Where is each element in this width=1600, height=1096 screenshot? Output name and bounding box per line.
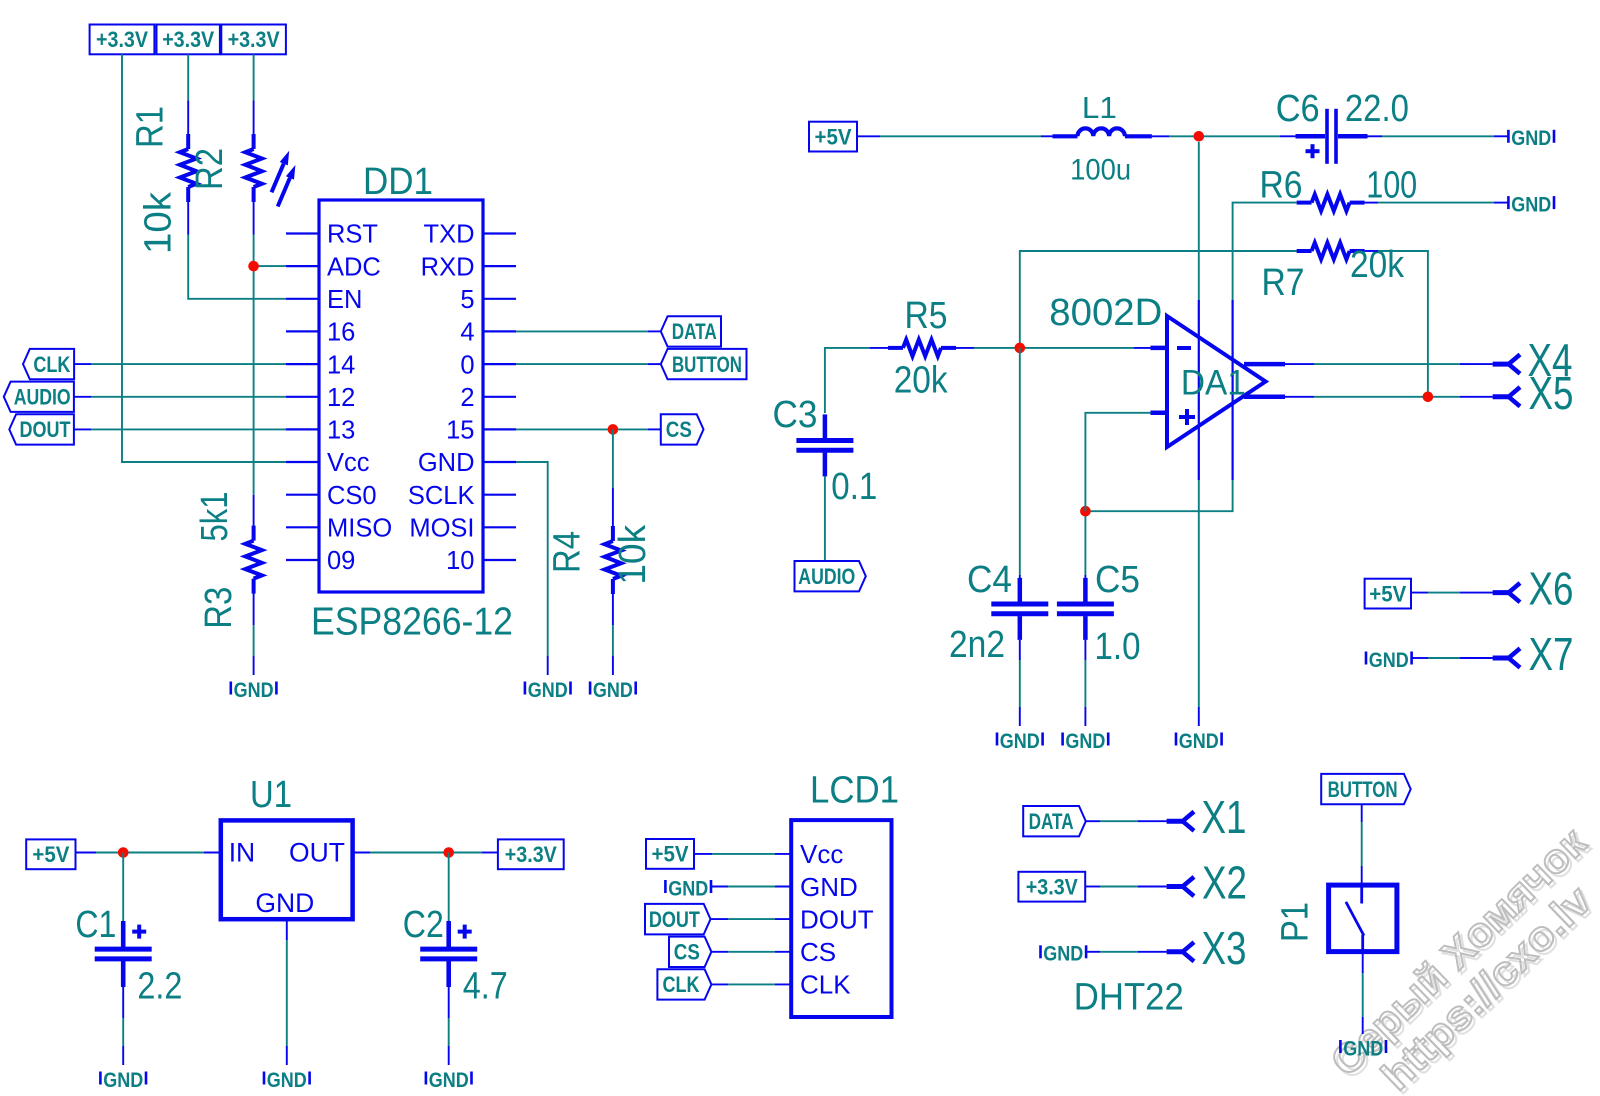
label C1 bbox=[75, 904, 116, 946]
svg-text:+3.3V: +3.3V bbox=[162, 27, 214, 52]
flag DOUT (in) bbox=[9, 414, 74, 444]
svg-text:GND: GND bbox=[103, 1068, 143, 1092]
flag AUDIO (out) bbox=[795, 561, 866, 591]
label R2 bbox=[189, 148, 231, 190]
value 100 (R6) bbox=[1366, 165, 1417, 207]
svg-text:L1: L1 bbox=[1082, 90, 1117, 125]
svg-text:GND: GND bbox=[528, 678, 568, 702]
power flag +5V (X6) bbox=[1365, 579, 1411, 609]
flag DOUT (LCD) bbox=[645, 904, 711, 935]
resistor R2 (photo) bbox=[245, 134, 295, 207]
svg-text:0.1: 0.1 bbox=[831, 466, 877, 508]
ground (C1) bbox=[100, 1068, 146, 1092]
ground (DA1) bbox=[1176, 729, 1222, 753]
label LCD1 bbox=[810, 770, 899, 812]
svg-text:GND: GND bbox=[800, 872, 858, 902]
wire GND to X3 bbox=[1087, 951, 1166, 953]
label X6 bbox=[1529, 563, 1574, 615]
wire R3 to GND bbox=[253, 625, 255, 675]
svg-text:MISO: MISO bbox=[327, 515, 392, 543]
label R5 bbox=[905, 295, 948, 337]
power flag +3.3V (2) bbox=[157, 25, 220, 55]
svg-text:CS: CS bbox=[674, 940, 700, 965]
ground (P1) bbox=[1340, 1036, 1386, 1060]
wire CS node to R4 bbox=[612, 429, 614, 526]
label R3 bbox=[198, 587, 240, 629]
label R6 bbox=[1260, 165, 1303, 207]
svg-text:10k: 10k bbox=[138, 191, 180, 254]
ground flag (LCD) bbox=[665, 876, 711, 900]
wire R7 left bbox=[1020, 251, 1297, 348]
svg-text:GND: GND bbox=[1369, 648, 1409, 672]
label P1 bbox=[1275, 902, 1317, 942]
svg-text:2: 2 bbox=[460, 384, 474, 412]
connector X6 bbox=[1493, 583, 1520, 602]
svg-text:GND: GND bbox=[255, 888, 314, 918]
ground flag (X7) bbox=[1366, 648, 1412, 672]
wire DOUT to LCD bbox=[711, 918, 792, 920]
svg-text:GND: GND bbox=[418, 449, 475, 477]
svg-text:+3.3V: +3.3V bbox=[1026, 875, 1078, 900]
value 20k (R5) bbox=[894, 360, 949, 402]
svg-text:X3: X3 bbox=[1202, 922, 1247, 974]
svg-text:C6: C6 bbox=[1276, 88, 1320, 130]
svg-text:DOUT: DOUT bbox=[20, 417, 71, 442]
svg-text:AUDIO: AUDIO bbox=[14, 385, 71, 410]
svg-text:14: 14 bbox=[327, 351, 355, 379]
flag CS (LCD) bbox=[669, 937, 711, 967]
value 22.0 (C6) bbox=[1345, 88, 1409, 130]
svg-text:DD1: DD1 bbox=[363, 161, 433, 203]
wire DOUT to pin13 bbox=[74, 428, 286, 430]
wire R2 to ADC node bbox=[253, 202, 255, 495]
wire C3 to AUDIO bbox=[824, 476, 826, 561]
wire L1 to node bbox=[1152, 135, 1296, 137]
svg-text:20k: 20k bbox=[894, 360, 949, 402]
regulator U1 bbox=[221, 820, 353, 919]
label X3 bbox=[1202, 922, 1247, 974]
resistor R7 bbox=[1297, 243, 1365, 260]
wire pin4 to DATA bbox=[516, 330, 661, 332]
svg-text:CS: CS bbox=[666, 417, 692, 442]
svg-text:13: 13 bbox=[327, 417, 355, 445]
wire plus input bbox=[1085, 413, 1150, 511]
wire node to C5 bbox=[1084, 511, 1086, 601]
wire BUTTON to P1 bbox=[1361, 804, 1363, 885]
label DA1 bbox=[1181, 364, 1246, 403]
wire +3.3V to Vcc bbox=[122, 54, 286, 462]
capacitor C5 bbox=[1057, 578, 1114, 640]
svg-text:2.2: 2.2 bbox=[137, 966, 182, 1008]
svg-text:1.0: 1.0 bbox=[1095, 626, 1141, 668]
label C6 bbox=[1276, 88, 1320, 130]
svg-text:RXD: RXD bbox=[421, 253, 475, 281]
svg-text:DOUT: DOUT bbox=[649, 907, 700, 932]
label C4 bbox=[967, 559, 1012, 601]
svg-text:+3.3V: +3.3V bbox=[505, 842, 557, 867]
svg-text:LCD1: LCD1 bbox=[810, 770, 899, 812]
svg-text:P1: P1 bbox=[1275, 902, 1317, 942]
svg-text:+5V: +5V bbox=[652, 842, 689, 867]
power flag +3.3V (X2) bbox=[1018, 872, 1085, 902]
label X5 bbox=[1529, 367, 1574, 419]
capacitor C3 bbox=[796, 414, 853, 476]
svg-text:GND: GND bbox=[593, 678, 633, 702]
ground (C4) bbox=[997, 729, 1043, 753]
wire C6 to GND bbox=[1368, 135, 1508, 137]
connector X2 bbox=[1167, 877, 1194, 896]
power flag +5V (U1) bbox=[26, 839, 75, 869]
svg-text:MOSI: MOSI bbox=[409, 515, 474, 543]
svg-text:IN: IN bbox=[229, 838, 256, 868]
flag BUTTON (P1) bbox=[1321, 774, 1411, 804]
wire R4 to GND bbox=[612, 594, 614, 675]
power flag +3.3V (U1) bbox=[498, 839, 564, 869]
power flag +5V (LCD) bbox=[646, 839, 694, 869]
svg-text:CLK: CLK bbox=[33, 352, 70, 377]
label U1 bbox=[250, 774, 292, 816]
value 100u (L1) bbox=[1070, 154, 1131, 187]
svg-text:AUDIO: AUDIO bbox=[798, 564, 855, 589]
wire CS to LCD bbox=[711, 951, 791, 953]
capacitor C2 bbox=[420, 923, 477, 985]
wire GND to X7 bbox=[1412, 657, 1493, 659]
value 1.0 (C5) bbox=[1095, 626, 1141, 668]
resistor R3 bbox=[245, 495, 262, 625]
label X4 bbox=[1528, 334, 1573, 386]
wire P1 to GND bbox=[1362, 952, 1364, 1034]
watermark bbox=[1322, 819, 1600, 1096]
svg-text:R3: R3 bbox=[198, 587, 240, 629]
svg-text:Vcc: Vcc bbox=[800, 839, 843, 869]
wire +5V to L1 bbox=[857, 135, 1053, 137]
wire +5V to X6 bbox=[1411, 592, 1493, 594]
svg-text:4.7: 4.7 bbox=[463, 966, 508, 1008]
ground flag (X3) bbox=[1041, 942, 1087, 966]
svg-text:BUTTON: BUTTON bbox=[1328, 777, 1398, 802]
svg-text:RST: RST bbox=[327, 221, 378, 249]
ground (R4) bbox=[590, 678, 636, 702]
capacitor C4 bbox=[991, 578, 1048, 640]
wire R6 left bbox=[1085, 203, 1296, 512]
value 4.7 (C2) bbox=[463, 966, 508, 1008]
svg-text:R6: R6 bbox=[1260, 165, 1303, 207]
wire DD1 GND bbox=[516, 462, 548, 675]
svg-text:4: 4 bbox=[460, 319, 474, 347]
svg-text:R5: R5 bbox=[905, 295, 948, 337]
svg-text:12: 12 bbox=[327, 384, 355, 412]
wire C1 top bbox=[122, 853, 124, 948]
svg-text:+3.3V: +3.3V bbox=[96, 27, 148, 52]
ground flag (C6) bbox=[1508, 126, 1554, 150]
wire DA1 vdd to GND bbox=[1198, 480, 1200, 726]
flag DATA (DD1) bbox=[661, 316, 721, 346]
svg-text:+5V: +5V bbox=[815, 124, 852, 149]
wire C3 to R5 bbox=[825, 348, 888, 413]
switch P1 bbox=[1329, 885, 1397, 952]
ground flag (R6) bbox=[1508, 193, 1554, 217]
label C3 bbox=[773, 394, 818, 436]
svg-text:09: 09 bbox=[327, 547, 355, 575]
ground (U1) bbox=[264, 1068, 310, 1092]
wire R7 right bbox=[1365, 251, 1428, 397]
label L1 bbox=[1082, 90, 1117, 125]
wire C2 top bbox=[448, 853, 450, 948]
resistor R6 bbox=[1297, 194, 1365, 211]
label R4 bbox=[547, 531, 589, 573]
ground (C2) bbox=[426, 1068, 472, 1092]
svg-text:CLK: CLK bbox=[800, 970, 851, 1000]
svg-text:5k1: 5k1 bbox=[194, 492, 236, 542]
wire +5V to IN bbox=[76, 852, 221, 854]
svg-text:BUTTON: BUTTON bbox=[672, 352, 742, 377]
label DD1 bbox=[363, 161, 433, 203]
svg-text:GND: GND bbox=[1179, 729, 1219, 753]
svg-text:X2: X2 bbox=[1202, 857, 1247, 909]
value 10k (R1) bbox=[138, 191, 180, 254]
value 20k (R7) bbox=[1350, 244, 1405, 286]
ground (C5) bbox=[1063, 729, 1109, 753]
label X2 bbox=[1202, 857, 1247, 909]
wire R6 to GND bbox=[1365, 202, 1508, 204]
wire pin15 to CS bbox=[516, 428, 661, 430]
svg-text:R4: R4 bbox=[547, 531, 589, 573]
LCD LCD1 bbox=[791, 820, 891, 1017]
svg-text:+3.3V: +3.3V bbox=[228, 27, 280, 52]
svg-text:GND: GND bbox=[1511, 126, 1551, 150]
wire ADC node to pin bbox=[254, 265, 286, 267]
value 2n2 (C4) bbox=[949, 624, 1005, 666]
label ESP8266-12 bbox=[311, 601, 513, 644]
junction R7/X5 bbox=[1423, 392, 1434, 403]
flag CS (DD1) bbox=[661, 414, 704, 444]
svg-text:Vcc: Vcc bbox=[327, 449, 370, 477]
power flag +5V (L1) bbox=[809, 122, 857, 152]
svg-text:GND: GND bbox=[1043, 942, 1083, 966]
svg-text:CS0: CS0 bbox=[327, 482, 377, 510]
svg-text:GND: GND bbox=[668, 876, 708, 900]
wire C2 to GND bbox=[446, 961, 451, 1065]
label R7 bbox=[1262, 262, 1305, 304]
svg-text:DA1: DA1 bbox=[1181, 364, 1246, 403]
op-amp DA1 bbox=[1151, 142, 1286, 480]
flag DATA (DHT22) bbox=[1023, 806, 1086, 836]
svg-text:X6: X6 bbox=[1529, 563, 1574, 615]
wire out to X4 bbox=[1285, 363, 1493, 365]
svg-text:ADC: ADC bbox=[327, 253, 381, 281]
wire C5 to GND bbox=[1084, 640, 1086, 726]
wire CLK to pin14 bbox=[74, 363, 286, 365]
svg-text:CS: CS bbox=[800, 937, 836, 967]
svg-text:X7: X7 bbox=[1529, 628, 1574, 680]
svg-text:DHT22: DHT22 bbox=[1074, 977, 1184, 1019]
svg-text:GND: GND bbox=[1343, 1036, 1383, 1060]
connector X1 bbox=[1167, 812, 1194, 831]
svg-text:15: 15 bbox=[446, 417, 474, 445]
svg-text:EN: EN bbox=[327, 286, 362, 314]
wire CLK to LCD bbox=[711, 983, 791, 985]
flag CLK bbox=[23, 349, 74, 379]
label 8002D bbox=[1049, 292, 1162, 334]
svg-text:C1: C1 bbox=[75, 904, 116, 946]
svg-text:2n2: 2n2 bbox=[949, 624, 1005, 666]
resistor R5 bbox=[888, 340, 956, 357]
wire pin0 to BUTTON bbox=[516, 363, 661, 365]
label X7 bbox=[1529, 628, 1574, 680]
wire node to C4 bbox=[1019, 348, 1021, 601]
resistor R4 bbox=[605, 526, 622, 594]
svg-text:10k: 10k bbox=[612, 524, 654, 585]
svg-text:R2: R2 bbox=[189, 148, 231, 190]
capacitor C6 bbox=[1296, 109, 1368, 164]
svg-text:22.0: 22.0 bbox=[1345, 88, 1409, 130]
connector X5 bbox=[1493, 387, 1520, 406]
junction +5V/C1 bbox=[118, 847, 129, 858]
svg-text:0: 0 bbox=[460, 351, 474, 379]
junction OUT/C2 bbox=[443, 847, 454, 858]
label C2 bbox=[403, 904, 444, 946]
label R1 bbox=[130, 106, 172, 148]
svg-text:X1: X1 bbox=[1202, 791, 1247, 843]
resistor R1 bbox=[180, 134, 197, 202]
junction L1/C6 bbox=[1194, 131, 1205, 142]
power flag +3.3V (1) bbox=[90, 25, 155, 55]
inductor L1 bbox=[1053, 128, 1152, 136]
IC DD1 ESP8266-12 bbox=[286, 200, 516, 592]
wire C4 to GND bbox=[1019, 640, 1021, 726]
value 0.1 (C3) bbox=[831, 466, 877, 508]
value 5k1 (R3) bbox=[194, 492, 236, 542]
svg-text:100: 100 bbox=[1366, 165, 1417, 207]
wire out to X5 bbox=[1285, 396, 1493, 398]
svg-text:ESP8266-12: ESP8266-12 bbox=[311, 601, 513, 644]
connector X7 bbox=[1493, 648, 1520, 667]
junction plus/R6/C5 bbox=[1080, 506, 1091, 517]
wire OUT to +3.3V bbox=[353, 852, 498, 854]
wire +3.3V to R2 bbox=[253, 54, 255, 134]
junction CS/R4 bbox=[608, 424, 619, 435]
svg-text:U1: U1 bbox=[250, 774, 292, 816]
label DHT22 bbox=[1074, 977, 1184, 1019]
svg-text:DATA: DATA bbox=[1029, 809, 1074, 834]
svg-text:+5V: +5V bbox=[32, 842, 69, 867]
svg-text:DATA: DATA bbox=[672, 319, 717, 344]
svg-text:16: 16 bbox=[327, 319, 355, 347]
svg-text:10: 10 bbox=[446, 547, 474, 575]
connector X3 bbox=[1167, 942, 1194, 961]
wire C1 to GND bbox=[121, 961, 126, 1065]
wire AUDIO to pin12 bbox=[74, 396, 286, 398]
wire U1 GND bbox=[286, 919, 288, 1065]
svg-text:C3: C3 bbox=[773, 394, 818, 436]
wire +5V to LCD Vcc bbox=[694, 853, 791, 855]
svg-text:X5: X5 bbox=[1529, 367, 1574, 419]
junction R5/R7/C4 bbox=[1015, 343, 1026, 354]
wire DATA to X1 bbox=[1086, 820, 1167, 822]
svg-text:R7: R7 bbox=[1262, 262, 1305, 304]
svg-text:GND: GND bbox=[267, 1068, 307, 1092]
svg-text:GND: GND bbox=[1511, 193, 1551, 217]
power flag +3.3V (3) bbox=[221, 25, 286, 55]
label C5 bbox=[1095, 559, 1140, 601]
svg-text:C4: C4 bbox=[967, 559, 1012, 601]
svg-text:OUT: OUT bbox=[289, 838, 345, 868]
wire R5 to minus node bbox=[956, 347, 1151, 349]
svg-text:8002D: 8002D bbox=[1049, 292, 1162, 334]
flag CLK (LCD) bbox=[657, 969, 711, 999]
capacitor C1 bbox=[95, 923, 152, 985]
value 10k (R4) bbox=[612, 524, 654, 585]
svg-text:5: 5 bbox=[460, 286, 474, 314]
ground (R3) bbox=[231, 678, 277, 702]
junction ADC bbox=[248, 261, 259, 272]
flag AUDIO (in) bbox=[4, 382, 74, 412]
wire +3.3V to R1 bbox=[187, 54, 189, 134]
svg-text:GND: GND bbox=[429, 1068, 469, 1092]
svg-text:+5V: +5V bbox=[1369, 581, 1406, 606]
svg-text:GND: GND bbox=[234, 678, 274, 702]
svg-text:DOUT: DOUT bbox=[800, 904, 874, 934]
svg-text:100u: 100u bbox=[1070, 154, 1131, 187]
svg-text:GND: GND bbox=[1065, 729, 1105, 753]
svg-text:GND: GND bbox=[1000, 729, 1040, 753]
svg-text:SCLK: SCLK bbox=[408, 482, 475, 510]
svg-text:TXD: TXD bbox=[424, 221, 475, 249]
svg-text:CLK: CLK bbox=[663, 972, 700, 997]
value 2.2 (C1) bbox=[137, 966, 182, 1008]
svg-text:C2: C2 bbox=[403, 904, 444, 946]
wire R1 to EN bbox=[188, 202, 286, 299]
svg-text:R1: R1 bbox=[130, 106, 172, 148]
label X1 bbox=[1202, 791, 1247, 843]
wire +3.3V to X2 bbox=[1085, 886, 1166, 888]
ground (DD1) bbox=[525, 678, 571, 702]
connector X4 bbox=[1493, 355, 1520, 374]
wire GND to LCD bbox=[711, 886, 791, 888]
svg-text:C5: C5 bbox=[1095, 559, 1140, 601]
flag BUTTON (DD1) bbox=[661, 349, 747, 379]
